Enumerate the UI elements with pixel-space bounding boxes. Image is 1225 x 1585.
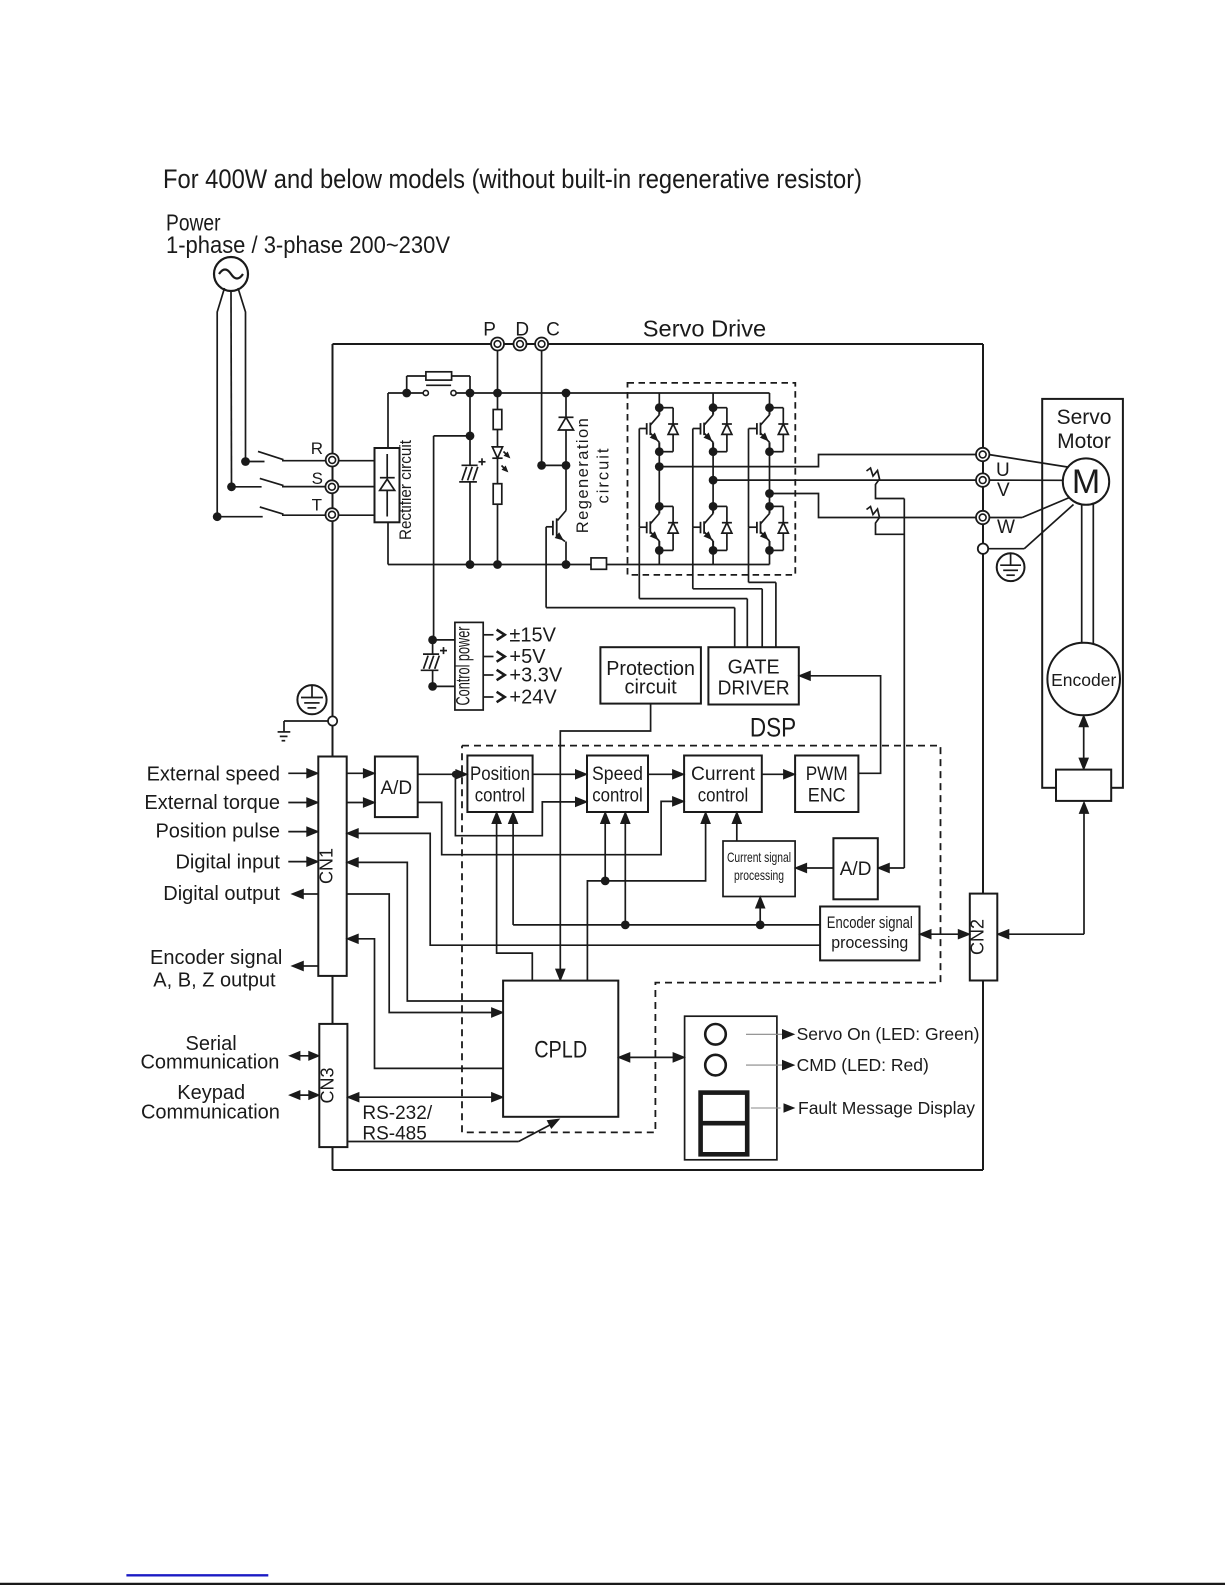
IGBT bridge column 3 phase node — [765, 452, 774, 507]
wire AC source to R switch — [238, 288, 246, 462]
wire ground to motor — [989, 505, 1074, 549]
wire CN1 digital output from CPLD — [347, 894, 503, 1017]
arrow CN1 to A/D speed — [347, 769, 375, 778]
inrush bypass resistor — [407, 372, 470, 393]
svg-text:Motor: Motor — [1057, 430, 1111, 453]
control power output +5V — [483, 646, 546, 668]
IGBT bridge column 1 lower transistor — [639, 502, 678, 565]
wire R terminal to rectifier — [332, 460, 375, 462]
IGBT bridge column 1 upper transistor — [639, 393, 678, 456]
svg-text:Rectifier circuit: Rectifier circuit — [396, 440, 415, 540]
svg-text:W: W — [997, 517, 1015, 538]
label Regeneration circuit — [574, 418, 613, 533]
junction dot regen emitter — [562, 560, 571, 569]
terminal P — [491, 338, 504, 351]
junction dot cap negative — [466, 560, 475, 569]
label Servo Motor — [1057, 406, 1112, 453]
rectifier circuit box — [375, 448, 400, 522]
servo motor box — [1042, 399, 1123, 788]
arrow speed to current control — [648, 770, 684, 779]
wire current sense to A/D — [878, 499, 905, 873]
wire W to motor — [989, 497, 1072, 518]
label Fault Message Display — [751, 1098, 975, 1118]
AC source symbol — [214, 257, 248, 291]
wire speed command branch — [455, 774, 587, 835]
A/D converter current box — [833, 838, 877, 899]
wire protection circuit to CPLD — [556, 704, 651, 981]
wire encoder connector to CN2 — [997, 802, 1088, 939]
svg-text:A/D: A/D — [840, 859, 872, 880]
label Digital output — [163, 883, 280, 905]
svg-text:M: M — [1072, 463, 1100, 501]
svg-text:T: T — [312, 496, 322, 515]
IGBT bridge column 1 phase node — [655, 452, 664, 507]
arrow CPLD to display — [618, 1053, 684, 1062]
junction dot bypass right — [466, 389, 475, 398]
svg-text:D: D — [515, 320, 529, 341]
arrow CN1 to A/D torque — [347, 798, 375, 807]
arrow current signal processing to current control — [732, 812, 741, 841]
terminal W — [976, 511, 989, 524]
wire control power inputs — [433, 640, 455, 687]
svg-text:CN2: CN2 — [968, 919, 988, 955]
svg-text:Fault Message Display: Fault Message Display — [798, 1098, 975, 1118]
svg-text:1-phase / 3-phase 200~230V: 1-phase / 3-phase 200~230V — [166, 232, 450, 259]
current signal processing box — [723, 841, 795, 897]
wire T terminal to rectifier — [332, 514, 375, 516]
svg-text:CPLD: CPLD — [534, 1037, 587, 1064]
arrow current control to PWM — [762, 770, 795, 779]
svg-text:±15V: ±15V — [509, 624, 556, 646]
wire P terminal to bus — [497, 351, 499, 394]
switch T phase — [213, 507, 332, 521]
terminal ground — [978, 544, 988, 554]
current sensor phase W — [867, 507, 905, 535]
svg-text:CMD (LED: Red): CMD (LED: Red) — [797, 1055, 929, 1075]
svg-text:Encoder signal: Encoder signal — [150, 947, 282, 969]
terminal V — [976, 473, 989, 486]
IGBT bridge column 2 lower transistor — [693, 502, 732, 565]
connector CN3 — [317, 1024, 347, 1147]
shunt resistor box on negative bus — [591, 558, 607, 569]
svg-text:C: C — [546, 320, 560, 341]
arrow External torque to CN1 — [288, 798, 318, 807]
label GATE DRIVER — [718, 656, 790, 699]
wire DC positive bus top — [388, 393, 770, 448]
arrow Digital output from CN1 — [292, 889, 319, 898]
svg-text:Encoder: Encoder — [1051, 670, 1116, 690]
label R — [311, 439, 323, 458]
svg-text:control: control — [698, 786, 749, 807]
svg-text:V: V — [997, 480, 1010, 501]
encoder circle — [1047, 643, 1120, 716]
label P — [483, 320, 496, 341]
svg-text:control: control — [592, 786, 643, 807]
label C — [546, 320, 560, 341]
control power output +-15V — [483, 624, 556, 646]
wire CPLD to position control — [492, 812, 532, 981]
ground connection circle on drive edge — [328, 716, 337, 725]
label RS-232 RS-485 — [362, 1103, 432, 1145]
regeneration transistor Q1 — [546, 465, 566, 564]
wire encoder feedback to CN1 — [347, 829, 820, 945]
svg-text:GATE: GATE — [728, 656, 780, 678]
inrush relay contact — [423, 385, 456, 395]
wire regen gate to gate driver — [546, 527, 735, 647]
motor encoder connector box — [1056, 770, 1111, 801]
bleeder resistor R2 — [493, 458, 502, 564]
label 1-phase / 3-phase 200~230V — [166, 232, 450, 259]
connector CN2 — [968, 894, 998, 981]
LED servo on — [705, 1024, 726, 1045]
wire encoder feedback to speed and position — [509, 812, 821, 929]
position control box — [467, 756, 532, 813]
wire torque command to current control — [418, 797, 684, 855]
current sensor phase V — [867, 468, 905, 499]
svg-text:DRIVER: DRIVER — [718, 677, 790, 699]
speed control box — [587, 756, 648, 813]
gate wire column 2 — [693, 429, 762, 648]
control power output +3.3V — [483, 665, 563, 687]
wire AC source to T switch — [217, 288, 224, 517]
label T — [312, 496, 322, 515]
DSP dashed boundary — [462, 746, 941, 1133]
protection circuit box — [600, 647, 701, 703]
wire control power feed — [434, 436, 470, 640]
svg-text:Current signal: Current signal — [727, 849, 791, 865]
wire phase V output — [713, 479, 976, 481]
junction dot control cap bottom — [428, 682, 437, 691]
IGBT bridge dashed box — [628, 383, 796, 575]
wire rectifier to negative bus — [387, 522, 389, 564]
protective earth symbol drive side — [297, 685, 326, 714]
motor shaft lines — [1082, 503, 1094, 644]
arrow encoder to connector — [1079, 715, 1088, 769]
svg-text:Speed: Speed — [592, 764, 643, 785]
A/D converter input box — [375, 757, 418, 818]
label Rectifier circuit — [396, 440, 415, 540]
label U — [996, 460, 1010, 481]
protective earth symbol motor side — [997, 553, 1025, 581]
regeneration diode — [559, 393, 574, 465]
junction dot bypass left — [402, 389, 411, 398]
wire V to motor — [989, 479, 1063, 481]
svg-text:circuit: circuit — [624, 677, 677, 699]
svg-text:processing: processing — [734, 867, 784, 883]
svg-text:DSP: DSP — [750, 712, 796, 742]
IGBT bridge column 3 lower transistor — [749, 502, 789, 565]
svg-text:CN1: CN1 — [317, 848, 337, 884]
arrow A/D to current signal processing — [795, 863, 833, 872]
label Protection circuit — [606, 658, 695, 699]
seven segment display — [701, 1093, 748, 1155]
arrow Keypad Communication to CN3 — [289, 1091, 319, 1100]
svg-text:+3.3V: +3.3V — [509, 665, 562, 687]
gate wire column 3 — [749, 429, 776, 648]
CPLD box — [503, 981, 618, 1117]
svg-text:Position: Position — [470, 764, 530, 785]
svg-text:Current: Current — [691, 764, 756, 785]
control power output +24V — [483, 687, 557, 709]
label CMD LED Red — [746, 1055, 929, 1075]
svg-text:Servo On (LED: Green): Servo On (LED: Green) — [797, 1024, 980, 1044]
svg-text:P: P — [483, 320, 496, 341]
svg-text:External torque: External torque — [144, 792, 280, 814]
svg-text:Servo Drive: Servo Drive — [643, 316, 766, 342]
arrow encoder signal processing to CN2 — [920, 930, 970, 939]
terminal S — [325, 480, 338, 493]
wire CN3 to CPLD — [347, 1093, 503, 1102]
bleeder resistor R1 — [493, 393, 502, 447]
terminal D — [514, 338, 527, 351]
svg-text:Servo: Servo — [1057, 406, 1112, 429]
wire CN3 RS to CPLD — [348, 1119, 559, 1141]
arrow A/D to position control — [418, 770, 468, 779]
svg-text:Control power: Control power — [454, 626, 475, 705]
wire CN1 encoder output to CPLD — [347, 934, 503, 1068]
chassis ground symbol — [278, 721, 328, 741]
arrow Position pulse to CN1 — [288, 827, 318, 836]
svg-text:R: R — [311, 439, 323, 458]
label External torque — [144, 792, 280, 814]
junction dot regen mid — [562, 461, 571, 470]
svg-text:CN3: CN3 — [317, 1067, 337, 1103]
wire phase U output — [659, 455, 976, 467]
junction dot P branch — [493, 389, 502, 398]
label Serial Communication — [140, 1033, 279, 1074]
switch S phase — [227, 478, 332, 491]
label Servo On LED Green — [746, 1024, 979, 1044]
junction dot C corner — [537, 461, 546, 470]
label DSP — [750, 712, 796, 742]
wire PWM to gate driver — [799, 671, 881, 773]
svg-text:processing: processing — [831, 933, 908, 952]
DC bus capacitor C1 — [459, 393, 485, 565]
svg-text:Digital output: Digital output — [163, 883, 280, 905]
terminal T — [326, 508, 339, 521]
terminal U — [976, 448, 989, 461]
arrow External speed to CN1 — [288, 769, 318, 778]
arrow Encoder signal from CN1 — [292, 961, 319, 970]
footer black rule — [0, 1583, 1225, 1585]
label Power — [166, 210, 221, 236]
svg-text:For 400W and below models (wit: For 400W and below models (without built… — [163, 164, 862, 194]
gate driver box — [708, 647, 798, 704]
label Keypad Communication — [141, 1082, 280, 1124]
svg-text:Encoder signal: Encoder signal — [827, 913, 913, 932]
svg-text:RS-232/: RS-232/ — [362, 1103, 432, 1124]
motor M circle — [1063, 458, 1109, 504]
svg-text:Communication: Communication — [141, 1102, 280, 1124]
current control box — [684, 756, 762, 813]
svg-text:+24V: +24V — [509, 687, 557, 709]
wire U to motor — [989, 455, 1068, 468]
wire C terminal to regen node — [542, 351, 566, 466]
connector CN1 — [317, 757, 347, 976]
terminal R — [326, 454, 339, 467]
arrow position to speed control — [533, 770, 587, 779]
label Digital input — [175, 852, 280, 874]
control power box — [454, 622, 484, 710]
title text — [163, 164, 862, 194]
arrow Serial Communication to CN3 — [289, 1052, 319, 1061]
label V — [997, 480, 1010, 501]
svg-text:A/D: A/D — [380, 778, 412, 799]
IGBT bridge column 2 upper transistor — [693, 393, 732, 456]
wire DC negative bus — [388, 564, 770, 566]
LED cmd — [705, 1055, 726, 1076]
label External speed — [147, 763, 280, 785]
wire phase W output — [770, 494, 977, 518]
svg-text:Communication: Communication — [140, 1052, 279, 1074]
servo drive enclosure box — [333, 344, 984, 1170]
wire CPLD to speed and current control — [587, 812, 710, 981]
junction dot regen branch — [562, 389, 571, 398]
svg-text:External speed: External speed — [147, 763, 280, 785]
arrow Digital input to CN1 — [288, 857, 318, 866]
svg-text:Regeneration: Regeneration — [574, 418, 592, 533]
label Servo Drive — [643, 316, 766, 342]
gate wire column 1 — [639, 429, 747, 648]
IGBT bridge column 2 phase node — [709, 452, 718, 507]
label S — [312, 469, 323, 488]
svg-text:ENC: ENC — [808, 786, 846, 807]
wire CN1 digital input to CPLD — [347, 858, 503, 1001]
control power capacitor — [421, 640, 447, 687]
IGBT bridge column 3 upper transistor — [749, 393, 789, 456]
terminal C — [535, 338, 548, 351]
svg-text:control: control — [475, 786, 526, 807]
svg-text:A, B, Z output: A, B, Z output — [153, 970, 276, 992]
PWM ENC box — [795, 756, 858, 813]
wire S terminal to rectifier — [332, 486, 375, 488]
footer blue rule — [126, 1574, 268, 1576]
charge LED D1 — [492, 447, 509, 472]
junction dot control power tap — [466, 432, 475, 441]
junction dot control cap top — [428, 636, 437, 645]
label W — [997, 517, 1015, 538]
junction dot bleeder negative — [493, 560, 502, 569]
svg-text:U: U — [996, 460, 1010, 481]
svg-text:Position pulse: Position pulse — [155, 821, 280, 843]
encoder signal processing box — [820, 907, 919, 961]
label D — [515, 320, 529, 341]
svg-text:PWM: PWM — [806, 764, 848, 785]
display panel box — [685, 1016, 777, 1160]
label Position pulse — [155, 821, 280, 843]
wire AC source to S switch — [230, 291, 233, 487]
label Encoder signal A B Z output — [150, 947, 282, 992]
svg-text:S: S — [312, 469, 323, 488]
svg-text:Digital input: Digital input — [175, 852, 280, 874]
switch R phase — [241, 451, 332, 466]
